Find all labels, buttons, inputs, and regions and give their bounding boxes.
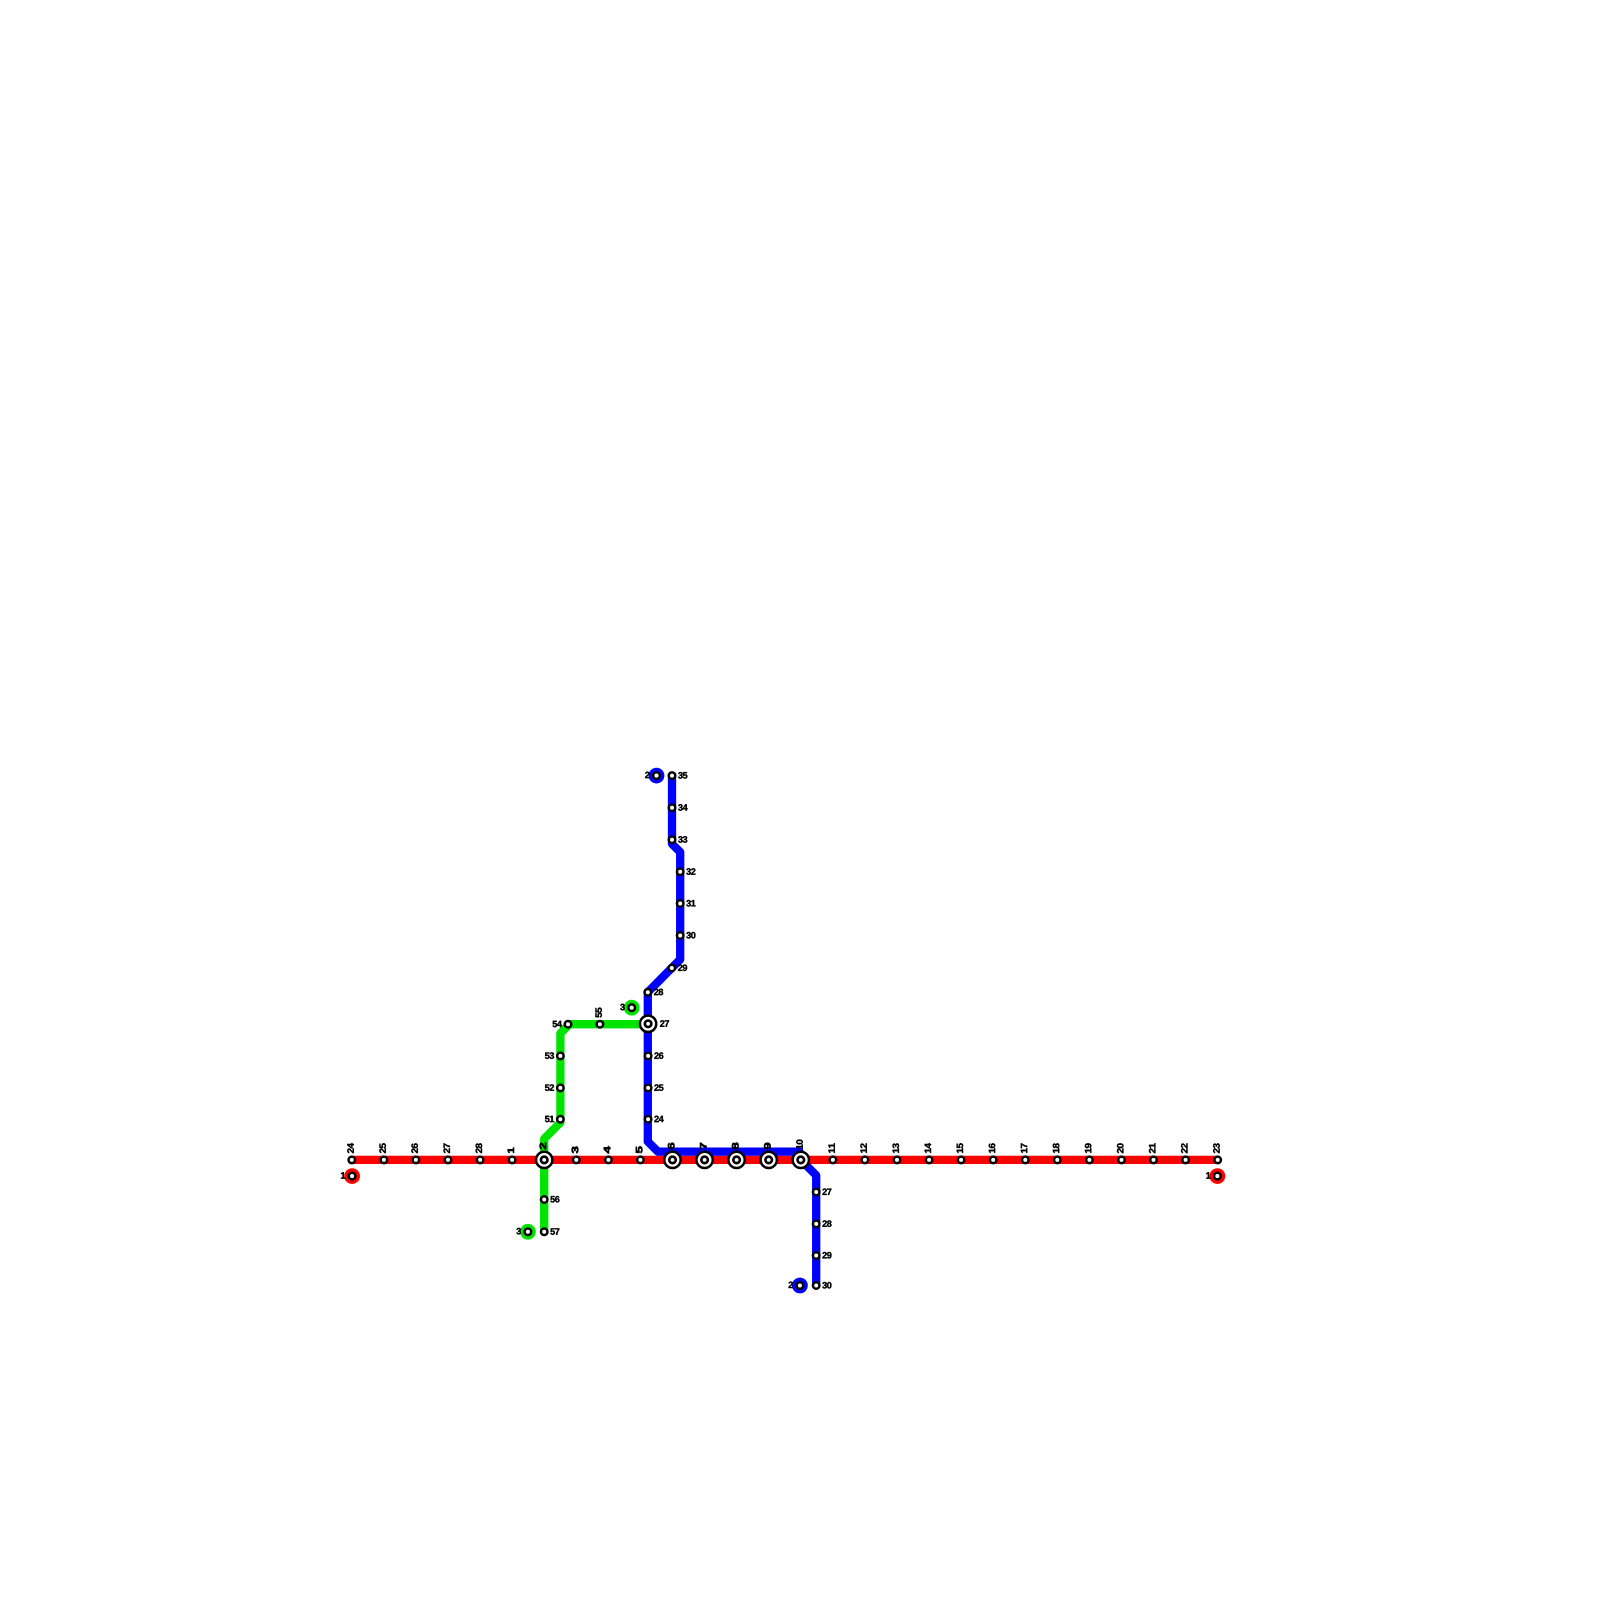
station 17 (red line)	[1021, 1143, 1029, 1163]
station 31 (blue line)	[677, 900, 696, 907]
station 16 (red line)	[989, 1143, 997, 1163]
station 10 (red line)	[793, 1140, 809, 1168]
station 15 (red line)	[957, 1143, 965, 1163]
station 12 (red line)	[860, 1143, 868, 1163]
station 32 (blue line)	[677, 868, 696, 875]
station 28 (blue line)	[813, 1220, 832, 1227]
station 30 (blue line)	[813, 1282, 832, 1289]
line 2 terminal badge (blue)	[789, 1278, 808, 1294]
station 28 (blue line)	[645, 989, 664, 996]
station 27 (red line)	[443, 1143, 451, 1163]
station 6 (red line)	[664, 1143, 680, 1168]
station 53 (green line)	[545, 1052, 564, 1059]
station 30 (blue line)	[677, 932, 696, 939]
station 29 (blue line)	[669, 964, 688, 971]
station 26 (red line)	[411, 1143, 419, 1163]
station 35 (blue line)	[669, 772, 688, 779]
line 1 red horizontal	[352, 1156, 1218, 1164]
line 2 blue	[648, 776, 816, 1286]
station 33 (blue line)	[669, 836, 688, 843]
station 3 (red line)	[572, 1147, 580, 1164]
station 56 (green line)	[541, 1196, 560, 1203]
station 1 (red line)	[508, 1148, 516, 1163]
station 57 (green line)	[541, 1228, 559, 1235]
station 24 (blue line)	[645, 1116, 664, 1123]
station 11 (red line)	[828, 1143, 836, 1163]
station 8 (red line)	[728, 1143, 744, 1168]
station 14 (red line)	[925, 1143, 933, 1163]
station 25 (red line)	[379, 1143, 387, 1163]
line 3 green	[544, 1024, 648, 1232]
station 9 (red line)	[761, 1143, 777, 1168]
line 3 terminal badge (green)	[620, 1000, 639, 1016]
station 2 (red line)	[536, 1143, 552, 1168]
line 2 terminal badge (blue)	[645, 768, 664, 784]
station 55 (green line)	[595, 1008, 603, 1028]
station 4 (red line)	[604, 1146, 612, 1163]
station 21 (red line)	[1149, 1143, 1157, 1163]
station 51 (green line)	[545, 1116, 564, 1123]
station 27 transfer (blue/green)	[640, 1016, 669, 1032]
line 3 terminal badge (green)	[516, 1224, 535, 1240]
station 27 (blue line)	[813, 1188, 831, 1195]
station 54 (green line)	[553, 1021, 572, 1028]
station 19 (red line)	[1085, 1143, 1093, 1163]
station 26 (blue line)	[645, 1052, 664, 1059]
station 28 (red line)	[476, 1143, 484, 1163]
station 5 (red line)	[636, 1146, 644, 1163]
station 20 (red line)	[1117, 1143, 1125, 1163]
line 1 terminal badge (red)	[1206, 1168, 1225, 1184]
station 18 (red line)	[1053, 1143, 1061, 1163]
station 23 (red line)	[1213, 1143, 1221, 1163]
station 25 (blue line)	[645, 1084, 664, 1091]
station 29 (blue line)	[813, 1252, 832, 1259]
station 34 (blue line)	[669, 804, 688, 811]
station 13 (red line)	[892, 1143, 900, 1163]
line 1 terminal badge (red)	[341, 1168, 360, 1184]
station 52 (green line)	[545, 1084, 564, 1091]
station 7 (red line)	[696, 1143, 712, 1168]
station 22 (red line)	[1181, 1143, 1189, 1163]
station 24 (red line)	[347, 1143, 355, 1163]
